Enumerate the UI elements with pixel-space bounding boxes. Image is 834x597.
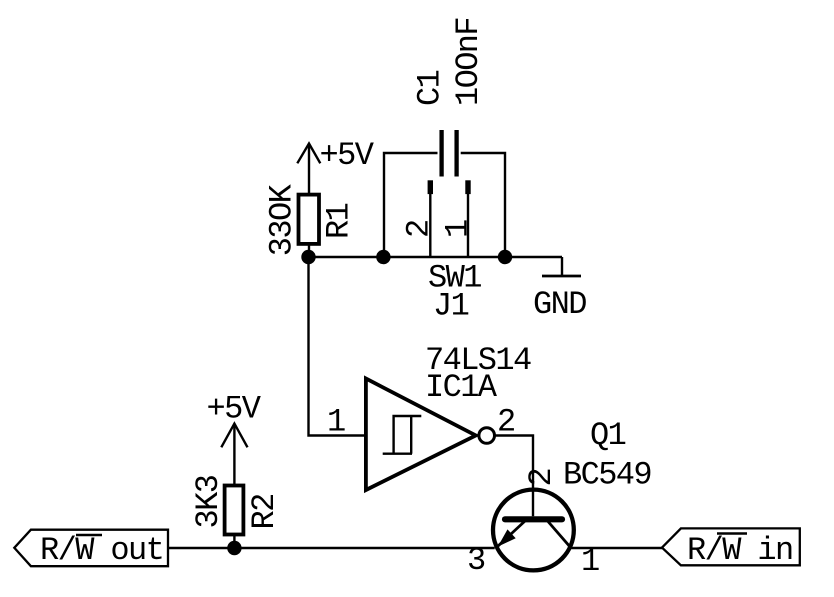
svg-text:3K3: 3K3 — [190, 475, 227, 528]
transistor Q1 body circle — [493, 490, 574, 571]
svg-text:R/W out: R/W out — [40, 532, 163, 569]
switch SW1 pin 1 — [465, 180, 470, 257]
wire main horizontal net — [309, 256, 563, 258]
svg-text:C1: C1 — [412, 70, 449, 106]
svg-text:1OOnF: 1OOnF — [450, 18, 487, 106]
svg-text:GND: GND — [533, 286, 586, 323]
svg-text:33OK: 33OK — [264, 183, 301, 256]
Q1 emitter arrow — [498, 529, 516, 546]
svg-text:BC549: BC549 — [563, 457, 651, 494]
inversion bubble — [479, 428, 495, 444]
wire C1 right branch — [461, 153, 505, 257]
global label R/W in — [662, 528, 800, 569]
svg-text:1: 1 — [327, 404, 345, 441]
Q1 collector — [548, 521, 570, 547]
op-amp U1: schmitt inverter IC1A triangle — [366, 379, 476, 491]
wire C1 left branch — [384, 153, 438, 257]
junction under R2 — [227, 541, 241, 555]
svg-text:+5V: +5V — [207, 391, 262, 428]
wire inverter output to Q1 base — [496, 436, 534, 517]
capacitor C1 — [442, 130, 457, 177]
global label R/W out — [14, 530, 168, 570]
ground symbol — [542, 275, 581, 278]
wire bottom net left — [168, 547, 495, 549]
svg-text:R1: R1 — [321, 203, 358, 239]
svg-text:R2: R2 — [246, 494, 283, 529]
power +5V symbol (R1 top) — [297, 144, 320, 194]
Q1 emitter — [498, 521, 526, 547]
svg-text:Q1: Q1 — [590, 417, 626, 454]
junction under R1 — [301, 250, 315, 264]
svg-text:R/W in: R/W in — [687, 532, 793, 569]
svg-text:IC1A: IC1A — [425, 369, 498, 406]
wire R1 bottom stub — [308, 244, 310, 257]
resistor R2 — [225, 486, 244, 535]
resistor R1 — [299, 195, 320, 244]
wire R2 bottom stub — [233, 535, 235, 549]
junction C1 left — [376, 250, 390, 264]
junction C1 right / GND — [498, 250, 512, 264]
wire R1 node to inverter input — [309, 257, 367, 436]
svg-text:2: 2 — [401, 220, 438, 238]
wire bottom net right — [572, 547, 663, 549]
svg-text:2: 2 — [523, 469, 560, 487]
wire to ground — [561, 257, 563, 276]
power +5V symbol (R2 top) — [221, 424, 247, 486]
svg-text:1: 1 — [440, 220, 477, 238]
svg-text:J1: J1 — [433, 288, 469, 325]
switch SW1 pin 2 — [428, 180, 433, 257]
hysteresis mark — [383, 416, 422, 454]
Q1 base bar — [505, 516, 562, 522]
svg-text:+5V: +5V — [320, 137, 375, 174]
